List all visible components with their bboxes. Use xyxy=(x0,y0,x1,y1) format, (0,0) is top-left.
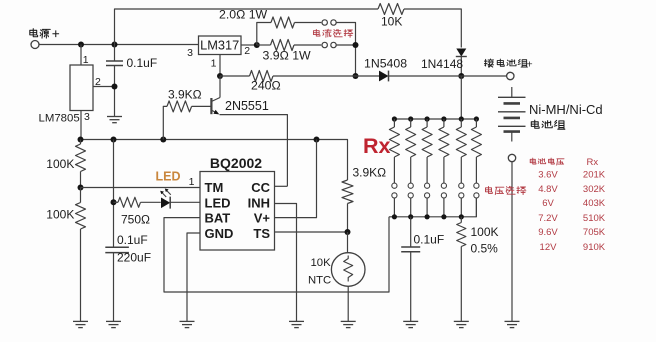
wire: jumper commons to 240ohm output node xyxy=(336,23,355,77)
terminal: battery negative xyxy=(508,154,515,161)
svg-text:1N4148: 1N4148 xyxy=(421,57,463,71)
wire: LM317 pin1 drop xyxy=(219,55,221,77)
svg-text:9.6V: 9.6V xyxy=(538,227,558,238)
node: Rx top rail junction 3 xyxy=(425,116,430,121)
svg-text:10K: 10K xyxy=(381,15,402,29)
svg-text:NTC: NTC xyxy=(308,274,331,286)
wire: cap chain from rail xyxy=(113,140,115,247)
svg-text:1N5408: 1N5408 xyxy=(364,57,407,71)
resistor 2.0ohm 1W (current select) xyxy=(219,8,321,29)
label: 电池组 (battery pack) xyxy=(531,120,565,129)
resistor Rx5 with selector contacts xyxy=(456,119,466,217)
svg-text:100K: 100K xyxy=(46,208,74,222)
svg-text:INH: INH xyxy=(248,195,270,210)
wire: INH pin to ground xyxy=(275,204,297,322)
label: 电压选择 (voltage select, red) xyxy=(486,186,526,194)
node: junction of input wire, top rail riser and 0.1uF cap xyxy=(112,42,118,48)
node: Rx top rail junction 5 xyxy=(459,116,464,121)
svg-text:BQ2002: BQ2002 xyxy=(210,155,262,171)
ground (divider bottom) xyxy=(73,321,88,327)
wire: to battery+ terminal xyxy=(461,75,506,77)
resistor 100K (divider bottom) xyxy=(46,188,85,322)
rail: +5V rail from LM7805 output xyxy=(81,140,348,181)
node: junction rail / base resistor riser xyxy=(160,137,166,143)
svg-text:V+: V+ xyxy=(254,211,271,226)
node: bus junction 4 xyxy=(441,214,446,219)
node: junction of input wire and LM7805 input xyxy=(78,42,84,48)
wire: top rail from 10K to 1N4148 branch xyxy=(404,9,461,48)
ground (NTC) xyxy=(341,321,356,327)
wire: LM317 pin2 to current-select resistors xyxy=(241,44,257,46)
svg-text:3: 3 xyxy=(187,47,193,59)
svg-text:100K: 100K xyxy=(46,157,74,171)
svg-text:910K: 910K xyxy=(583,242,606,253)
node: junction rail / LM7805 out / 100K xyxy=(78,137,84,143)
label: pin 1 xyxy=(189,176,195,188)
regulator LM317 (box) xyxy=(187,36,250,70)
svg-text:4.8V: 4.8V xyxy=(538,184,558,195)
resistor 3.9ohm 1W (current select) xyxy=(257,40,322,63)
terminal: 电源+ input terminal xyxy=(30,29,59,49)
node: junction chain / 750ohm xyxy=(111,199,117,205)
node: junction rail / V+ riser xyxy=(314,137,320,143)
wire: LM7805 pin2 to ground node xyxy=(93,86,115,88)
ground (battery negative) xyxy=(505,321,520,327)
node: junction jumper common at 45 xyxy=(353,42,359,48)
pin TS xyxy=(253,226,270,241)
wire: divider mid to TM pin xyxy=(81,187,201,189)
pin TM xyxy=(205,180,224,195)
wire: +V input wire from power terminal to LM317 pin3 xyxy=(39,44,199,46)
node: Rx top rail junction 6 xyxy=(474,116,479,121)
svg-text:Rx: Rx xyxy=(586,157,598,168)
bus: Rx selector common bus xyxy=(389,199,476,217)
resistor 750ohm (LED series) xyxy=(114,197,161,226)
svg-text:0.5%: 0.5% xyxy=(471,242,499,256)
svg-text:2.0Ω 1W: 2.0Ω 1W xyxy=(219,8,268,22)
svg-text:100K: 100K xyxy=(471,225,499,239)
thermistor 10K NTC xyxy=(308,232,365,321)
regulator LM7805 (vertical box) xyxy=(39,45,102,140)
resistor Rx4 with selector contacts xyxy=(439,119,449,217)
ground (INH) xyxy=(289,321,304,327)
diode 1N5408 (charge path) xyxy=(356,57,462,82)
svg-text:220uF: 220uF xyxy=(117,251,151,265)
node: Rx top rail junction 1 xyxy=(392,116,397,121)
svg-text:TS: TS xyxy=(253,226,270,241)
node: Rx top rail junction 2 xyxy=(408,116,413,121)
resistor 3.9K (TS pull-up) xyxy=(342,166,386,233)
svg-text:2: 2 xyxy=(244,45,250,57)
IC BQ2002 (charge controller) xyxy=(200,155,275,250)
capacitor 0.1uF (BAT filter) xyxy=(401,217,444,322)
terminal: 接电池组+ (to battery pack +) xyxy=(484,59,532,80)
node: bus junction 3 xyxy=(425,214,430,219)
svg-text:0.1uF: 0.1uF xyxy=(414,233,445,247)
svg-text:+: + xyxy=(527,59,533,71)
svg-text:BAT: BAT xyxy=(205,211,231,226)
node: junction rail / cap chain xyxy=(111,137,117,143)
transistor 2N5551 (NPN) xyxy=(211,76,268,114)
svg-text:Ni-MH/Ni-Cd: Ni-MH/Ni-Cd xyxy=(529,102,603,117)
node: Rx top rail junction 4 xyxy=(441,116,446,121)
pin INH xyxy=(248,195,270,210)
table row: 6V -> 403K xyxy=(542,198,606,209)
table row: 12V -> 910K xyxy=(540,242,606,253)
label: 电流选择 (current select, red) xyxy=(313,29,352,37)
svg-text:510K: 510K xyxy=(583,213,606,224)
table row: 4.8V -> 302K xyxy=(538,184,606,195)
svg-text:TM: TM xyxy=(205,180,224,195)
table row: 7.2V -> 510K xyxy=(538,213,606,224)
pin V+ xyxy=(254,211,271,226)
resistor 100K (divider top) xyxy=(46,140,85,188)
table: battery voltage vs Rx header xyxy=(530,157,598,168)
node: bus junction 1 xyxy=(392,214,397,219)
node: junction TS / thermistor xyxy=(345,229,351,235)
table row: 9.6V -> 705K xyxy=(538,227,606,238)
wire: BAT pin route to Rx selector bus xyxy=(164,217,389,292)
svg-text:750Ω: 750Ω xyxy=(121,213,150,227)
ground (BQ2002 GND) xyxy=(180,321,195,327)
svg-text:302K: 302K xyxy=(583,184,606,195)
svg-text:3.9KΩ: 3.9KΩ xyxy=(353,166,387,180)
svg-text:3.9KΩ: 3.9KΩ xyxy=(168,88,202,102)
node: junction 1N4148 / battery+ wire xyxy=(458,73,464,79)
svg-text:GND: GND xyxy=(205,226,234,241)
svg-text:2N5551: 2N5551 xyxy=(225,99,269,113)
svg-text:7.2V: 7.2V xyxy=(538,213,558,224)
wire: V+ pin riser to 5V rail xyxy=(275,140,317,218)
resistor Rx6 with selector contacts xyxy=(471,119,481,217)
svg-text:LED: LED xyxy=(205,195,231,210)
resistor 100K 0.5% (divider bottom) xyxy=(457,217,499,322)
node: bus junction 2 xyxy=(408,214,413,219)
svg-text:403K: 403K xyxy=(583,198,606,209)
label: LED (orange) xyxy=(156,170,181,184)
svg-text:1: 1 xyxy=(83,54,89,66)
resistor 240ohm xyxy=(220,71,356,93)
wire: top rail riser and top rail to 10K xyxy=(115,9,379,45)
terminal pair: current select jumpers xyxy=(322,20,336,48)
svg-text:CC: CC xyxy=(251,180,270,195)
svg-text:LM317: LM317 xyxy=(200,38,239,53)
capacitor 0.1uF (input decoupling) xyxy=(106,45,157,117)
svg-text:201K: 201K xyxy=(583,170,606,181)
wire: riser to 2.0ohm branch xyxy=(257,23,271,46)
svg-text:0.1uF: 0.1uF xyxy=(117,233,148,247)
svg-text:1: 1 xyxy=(189,176,195,188)
svg-text:LED: LED xyxy=(156,170,181,184)
wire: TS pin to thermistor node xyxy=(275,231,348,233)
ground (100K 0.5%) xyxy=(454,321,469,327)
resistor Rx2 with selector contacts xyxy=(406,119,416,217)
svg-text:1: 1 xyxy=(211,58,217,70)
node: junction pin2/cap ground line xyxy=(112,84,118,90)
node: junction pin1 / 240ohm / collector xyxy=(217,73,223,79)
wire: emitter to CC pin (via x287) xyxy=(220,115,288,187)
LED (charge indicator) xyxy=(160,189,200,209)
ground (input decoupling cap) xyxy=(107,117,122,123)
pin LED xyxy=(205,195,231,210)
battery: Ni-MH/Ni-Cd pack (3 cells) xyxy=(498,87,603,142)
wire: GND pin to ground xyxy=(187,233,200,321)
svg-text:Rx: Rx xyxy=(363,134,391,158)
ground (BAT filter cap) xyxy=(403,321,418,327)
svg-text:3: 3 xyxy=(84,111,90,123)
pin BAT xyxy=(205,211,231,226)
resistor Rx3 with selector contacts xyxy=(422,119,432,217)
svg-text:10K: 10K xyxy=(311,257,332,269)
svg-text:6V: 6V xyxy=(542,198,554,209)
node: junction divider mid / TM wire xyxy=(78,185,84,191)
resistor 10K (top rail) xyxy=(378,4,404,29)
svg-text:3.6V: 3.6V xyxy=(538,170,558,181)
diode 1N4148 (cathode down to battery+ node) xyxy=(421,49,467,77)
svg-text:240Ω: 240Ω xyxy=(251,79,281,93)
ground (cap chain) xyxy=(106,321,121,327)
pin GND xyxy=(205,226,234,241)
svg-text:12V: 12V xyxy=(540,242,558,253)
label: Rx (red) xyxy=(363,134,391,158)
node: bus junction 5 xyxy=(459,214,464,219)
pin CC xyxy=(251,180,270,195)
wire: battery negative to ground xyxy=(511,162,513,322)
svg-text:LM7805: LM7805 xyxy=(39,113,80,125)
resistor 3.9K (base drive) xyxy=(163,88,210,140)
node: junction pin2 / 2.0ohm riser xyxy=(254,42,260,48)
svg-text:705K: 705K xyxy=(583,227,606,238)
resistor Rx1 with selector contacts xyxy=(389,119,399,217)
wire: CC pin stub xyxy=(275,185,288,187)
svg-text:0.1uF: 0.1uF xyxy=(127,56,158,70)
rail: Rx bank top rail from 1N4148 node xyxy=(394,76,476,119)
svg-text:3.9Ω 1W: 3.9Ω 1W xyxy=(263,49,312,63)
table row: 3.6V -> 201K xyxy=(538,170,606,181)
capacitor 0.1uF + 220uF (parallel pair) xyxy=(105,233,151,321)
node: junction jumper drop / charge wire xyxy=(353,73,359,79)
